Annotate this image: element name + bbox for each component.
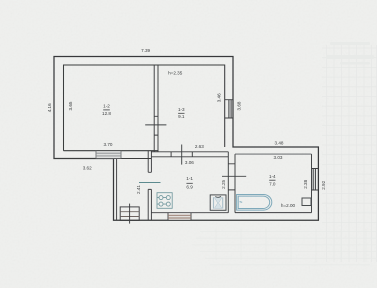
door line kitchen to bathroom [222, 175, 246, 177]
wall: room 1-2 bottom wall (double line) [54, 151, 158, 159]
svg-text:h=2.00: h=2.00 [281, 203, 296, 208]
svg-text:2.38: 2.38 [303, 179, 308, 188]
stairs in vestibule [120, 204, 139, 224]
svg-text:3.68: 3.68 [237, 101, 242, 110]
svg-text:3.65: 3.65 [68, 101, 73, 110]
svg-text:3.62: 3.62 [83, 165, 92, 170]
building outer wall outline [54, 57, 318, 221]
svg-text:2.25: 2.25 [221, 179, 226, 188]
svg-text:3.48: 3.48 [275, 141, 284, 146]
svg-text:6.9: 6.9 [186, 184, 193, 189]
svg-text:1-2: 1-2 [103, 103, 110, 108]
svg-text:9.1: 9.1 [178, 114, 185, 119]
wall: vestibule left inner line [116, 159, 118, 221]
wall: kitchen left wall with door opening [148, 151, 151, 221]
bathroom sink [302, 198, 311, 206]
wall: bathroom top inner line [235, 153, 312, 155]
svg-text:1-1: 1-1 [186, 176, 193, 181]
stove in kitchen [157, 193, 172, 209]
door line room 1-3 to kitchen [181, 145, 183, 165]
faint ghost text smudges top right [326, 42, 374, 65]
faint ghost grid right margin [322, 45, 377, 262]
svg-text:4.16: 4.16 [47, 103, 52, 112]
window W in room 1-2 bottom wall [96, 151, 121, 159]
wall: kitchen / bathroom dividing wall [228, 152, 235, 213]
svg-text:7.0: 7.0 [269, 181, 276, 186]
svg-text:2.92: 2.92 [321, 180, 326, 189]
faint ghost grid bottom [192, 229, 377, 265]
door line vestibule to kitchen [139, 182, 161, 184]
door opening ticks kitchen top wall [171, 152, 192, 157]
svg-text:2.63: 2.63 [195, 144, 204, 149]
svg-text:7.39: 7.39 [141, 48, 150, 53]
svg-text:3.46: 3.46 [216, 93, 221, 102]
wall: partition between rooms 1-2 and 1-3 [154, 65, 158, 152]
window in kitchen bottom wall [168, 213, 191, 221]
svg-text:3.70: 3.70 [104, 142, 113, 147]
svg-text:1-3: 1-3 [178, 107, 185, 112]
door opening ticks kitchen/bath wall [228, 164, 235, 190]
svg-text:12.8: 12.8 [102, 111, 111, 116]
svg-text:3.03: 3.03 [274, 155, 283, 160]
bathtub [237, 195, 272, 211]
door opening ticks in partition [154, 116, 158, 135]
svg-text:2.41: 2.41 [136, 185, 141, 194]
door line across partition [145, 124, 166, 126]
svg-text:h=2.35: h=2.35 [168, 70, 183, 75]
kitchen sink / water heater [210, 195, 226, 210]
wall: bathroom bottom inner lines [151, 212, 311, 214]
svg-text:3.06: 3.06 [185, 160, 194, 165]
svg-text:1-4: 1-4 [269, 174, 276, 179]
window in bathroom right wall [312, 169, 319, 191]
wall: bathroom right inner line [311, 154, 313, 213]
wall inner line of top, left and right walls (rooms 1-2 / 1-3) [64, 65, 225, 151]
window in room 1-3 right wall [225, 100, 233, 118]
wall: kitchen top wall (room 1-3 bottom) [151, 152, 228, 157]
